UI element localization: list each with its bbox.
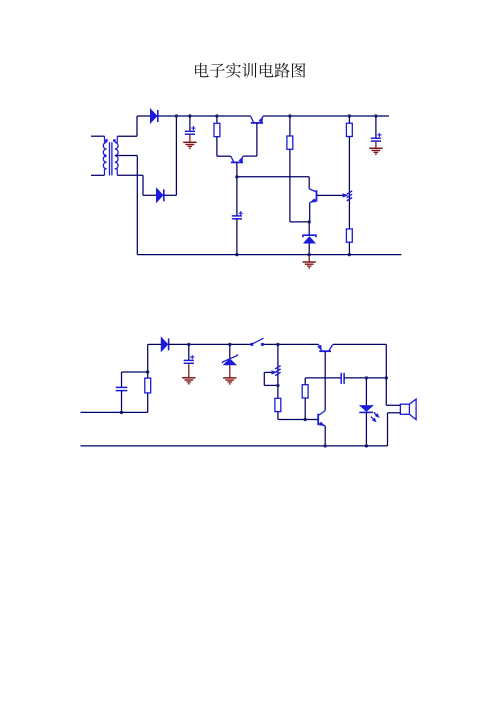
- junction R4 top: [288, 114, 291, 117]
- junction node rectifier output: [175, 114, 178, 117]
- junction LED bottom: [365, 444, 368, 447]
- wire circuit2 top left segment: [148, 343, 162, 345]
- junction Q5 emitter: [324, 444, 327, 447]
- capacitor C1 (polarized): [185, 116, 196, 134]
- wire bottom rail circuit 2: [81, 445, 388, 447]
- junction node Q2 base bias: [235, 175, 238, 178]
- wire RP2 wiper loop: [264, 372, 278, 385]
- wire input bottom lead: [81, 411, 148, 413]
- transformer T1 core: [110, 142, 112, 175]
- junction LED tap: [365, 376, 368, 379]
- LED D6 emission arrows: [371, 412, 380, 422]
- wire secondary-bottom to D2: [143, 175, 156, 195]
- transistor Q4: [317, 345, 332, 352]
- transformer T1 secondary winding with center tap: [115, 136, 143, 175]
- transistor Q3: [309, 189, 316, 203]
- junction base node: [304, 418, 307, 421]
- junction R1 top: [215, 114, 218, 117]
- wire secondary-top to rail: [136, 116, 138, 136]
- resistor R9: [302, 378, 308, 420]
- junction R6 bottom: [348, 253, 351, 256]
- wire D3 to ground: [308, 255, 310, 262]
- wire C6 to feedback node: [344, 377, 386, 379]
- wire D5 to ground: [229, 365, 231, 378]
- wire center-tap down to bottom rail: [136, 156, 138, 255]
- transformer T1 primary mid junction dot: [104, 154, 107, 157]
- wire speaker bottom lead: [388, 413, 401, 446]
- junction D3 bottom: [308, 253, 311, 256]
- wire speaker top lead: [386, 344, 400, 405]
- wire R9 top to C6: [305, 377, 341, 379]
- transistor Q2: [231, 156, 243, 162]
- resistor R7 (input): [145, 372, 151, 412]
- wire bias node to Q3 collector: [237, 177, 309, 189]
- potentiometer RP1 wiper arrow: [343, 193, 349, 197]
- wire RP2 top: [277, 344, 279, 385]
- wire R4 bottom to zener node: [290, 149, 309, 222]
- diode D1: [150, 109, 157, 123]
- wire D4 to switch: [169, 343, 252, 345]
- zener diode D5: [222, 344, 238, 365]
- junction divider top: [348, 114, 351, 117]
- junction C5 tap: [187, 343, 190, 346]
- potentiometer RP2 wiper arrow: [264, 370, 277, 374]
- capacitor C2 (polarized): [232, 177, 243, 219]
- wire Q4 to speaker corner: [333, 343, 387, 345]
- capacitor C4: [116, 372, 128, 412]
- wire R1 bottom to Q2 collector: [217, 137, 231, 157]
- transformer T1 primary winding: [91, 136, 107, 175]
- wire Q3 base to wiper: [317, 194, 344, 196]
- resistor R4: [287, 116, 293, 149]
- transformer T1 phase dot (primary): [105, 139, 108, 142]
- title text 电子实训电路图: [195, 63, 305, 78]
- junction input node: [146, 370, 149, 373]
- switch S1: [250, 338, 264, 346]
- junction D5 tap: [228, 343, 231, 346]
- junction RP2 top: [276, 343, 279, 346]
- capacitor C6 (coupling): [341, 373, 344, 384]
- wire C2 to bottom rail: [236, 219, 238, 255]
- wire switch to Q4: [263, 343, 319, 345]
- junction C1 tap: [188, 114, 191, 117]
- wire C1 to ground: [189, 134, 191, 142]
- wire node to C4: [122, 371, 148, 373]
- junction RP2 bottom: [276, 384, 279, 387]
- potentiometer RP1 element: [347, 191, 352, 201]
- transformer T1 phase dot (secondary): [113, 139, 116, 142]
- resistor R6: [346, 229, 352, 255]
- junction C2 bottom: [235, 253, 238, 256]
- wire top rail right segment: [263, 115, 389, 117]
- resistor R5: [346, 116, 352, 137]
- zener diode D3: [303, 222, 316, 255]
- ground below C5: [182, 378, 195, 385]
- ground below C3: [369, 148, 382, 155]
- junction speaker branch: [385, 376, 388, 379]
- transistor Q5: [318, 411, 325, 426]
- potentiometer RP2 element: [275, 366, 280, 376]
- wire input top vertical: [147, 344, 149, 372]
- wire R5 to RP1: [348, 137, 350, 229]
- wire R8 to Q5 base: [278, 419, 318, 421]
- transistor Q1: [251, 116, 264, 123]
- diode D2: [156, 188, 163, 202]
- wire Q3 emitter down: [309, 203, 311, 222]
- ground below D3: [303, 262, 316, 269]
- wire Q1 base down: [243, 123, 257, 156]
- speaker LS: [400, 399, 416, 420]
- capacitor C5 (polarized): [184, 344, 195, 363]
- wire bottom rail circuit 1: [137, 254, 401, 256]
- junction C3 tap: [374, 114, 377, 117]
- resistor R8: [275, 385, 281, 419]
- wire Q4 base to Q5 collector: [324, 351, 326, 410]
- ground below D5: [223, 378, 236, 385]
- wire LED top: [365, 378, 367, 405]
- wire D2 cathode up to rail: [164, 116, 176, 195]
- wire C5 to ground: [188, 363, 190, 378]
- junction zener node: [308, 220, 311, 223]
- resistor R1: [214, 116, 220, 137]
- wire Q2 base down: [236, 162, 238, 176]
- wire Q5 emitter to rail: [324, 426, 326, 446]
- diode D4: [161, 337, 168, 351]
- capacitor C3 (polarized): [371, 116, 382, 141]
- wire C3 to ground: [375, 141, 377, 148]
- wire LED to rail: [365, 412, 367, 446]
- ground below C1: [183, 142, 196, 149]
- junction C4 bottom: [120, 411, 123, 414]
- LED D6: [359, 405, 374, 412]
- wire top rail left segment: [137, 115, 251, 117]
